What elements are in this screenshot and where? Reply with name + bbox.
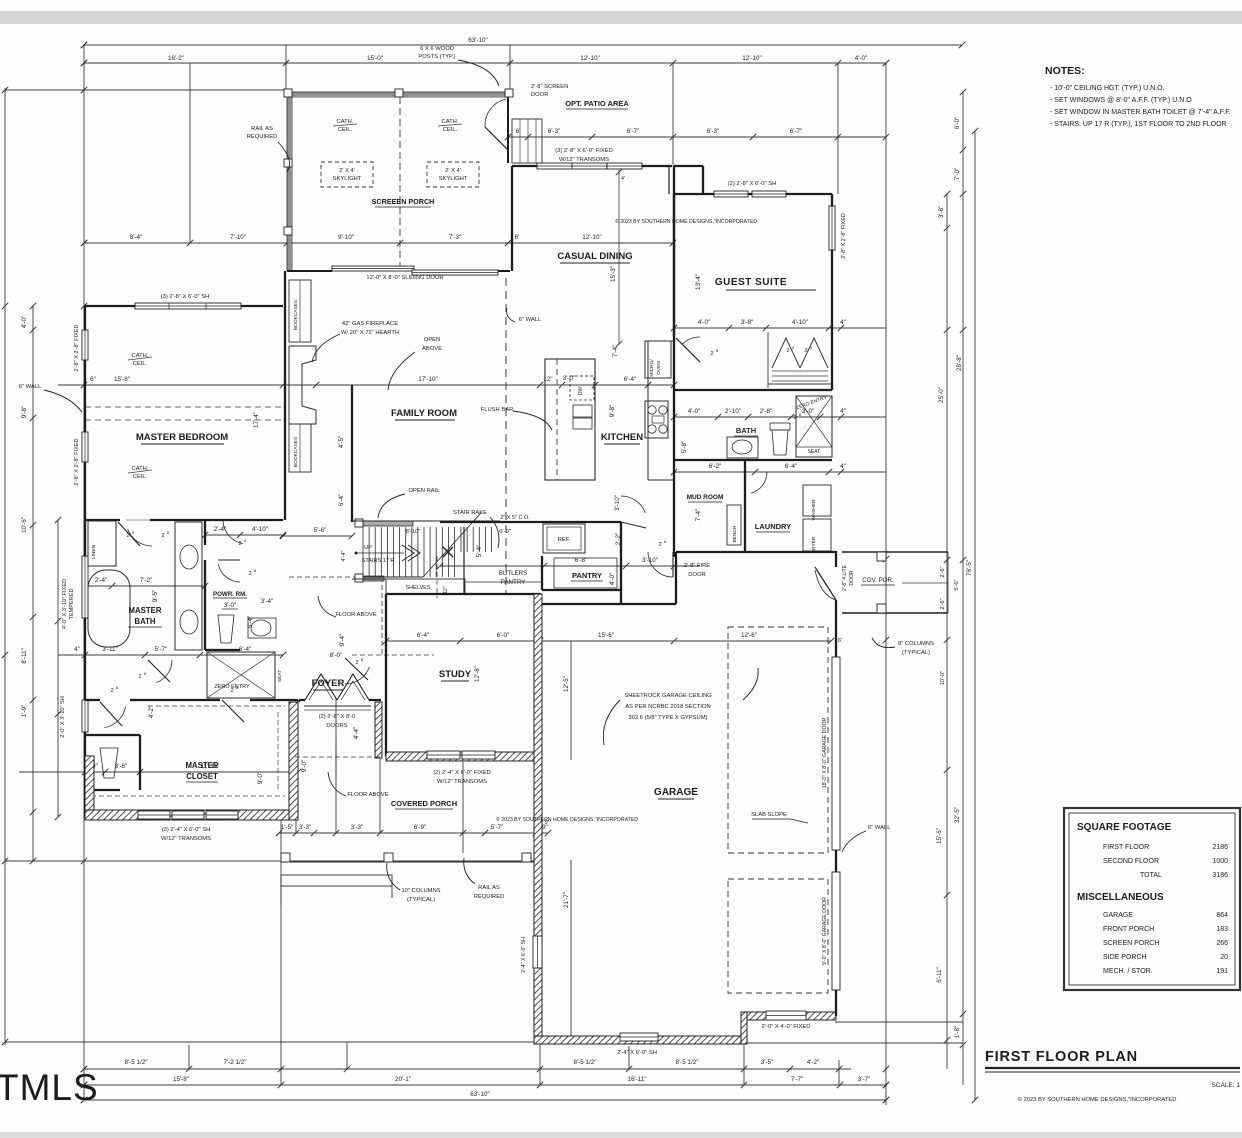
svg-text:2: 2 [804,348,807,354]
svg-text:2: 2 [248,571,251,577]
svg-text:BENCH: BENCH [732,525,738,542]
patio steps [512,119,542,163]
svg-text:FIRST FLOOR PLAN: FIRST FLOOR PLAN [985,1049,1138,1065]
svg-text:3'-8": 3'-8" [938,206,945,219]
svg-text:8'-11": 8'-11" [21,648,28,664]
svg-text:4": 4" [840,319,846,326]
garage left wall window [533,936,542,968]
svg-text:PANTRY: PANTRY [501,579,526,586]
stair left wall [351,385,353,522]
svg-text:REF.: REF. [558,537,571,543]
garage bottom step walls [744,1012,836,1020]
casual top wall extension [674,165,703,167]
linen angled door [118,522,140,546]
master bath dim line y655 [58,646,286,658]
foyer dim line y536 [280,527,355,539]
svg-text:SKYLIGHT: SKYLIGHT [439,176,468,182]
6 inch wall dashed partition [505,278,507,593]
svg-text:CASUAL DINING: CASUAL DINING [557,251,632,262]
svg-text:8'-10": 8'-10" [406,529,421,535]
svg-text:2'-8" 4 LITE: 2'-8" 4 LITE [842,564,848,591]
svg-text:RAIL AS: RAIL AS [251,126,273,132]
svg-text:OPEN RAIL: OPEN RAIL [409,488,441,494]
closet top walls [85,699,100,701]
foyer closet walls [298,700,300,702]
svg-text:COVERED PORCH: COVERED PORCH [391,799,457,808]
guest bath dim line y417 [671,408,886,420]
svg-text:12'-6": 12'-6" [741,632,757,639]
svg-text:BATH: BATH [134,617,155,626]
svg-text:2'-10": 2'-10" [725,408,741,415]
study top wall [386,593,541,595]
svg-text:MICRO/: MICRO/ [649,359,655,377]
svg-text:12'-5": 12'-5" [563,676,570,692]
porch dim line y833 [276,824,551,836]
entry double doors [305,674,337,700]
garage door 1 (18 ft) [832,657,840,850]
svg-text:UP: UP [364,545,372,551]
svg-text:15'-0": 15'-0" [367,55,383,62]
svg-text:MUD ROOM: MUD ROOM [687,494,724,501]
svg-text:W/12" TRANSOMS: W/12" TRANSOMS [559,157,609,163]
svg-text:5'-7": 5'-7" [491,824,504,831]
svg-text:PANTRY: PANTRY [572,571,602,580]
svg-text:2: 2 [710,351,713,357]
svg-text:2: 2 [238,541,241,547]
svg-text:10'-6": 10'-6" [21,517,28,533]
closet dim line y772 [19,763,301,775]
svg-text:2'-8" SCREEN: 2'-8" SCREEN [531,84,568,90]
guest suite dim line y328 [671,319,886,331]
svg-text:6': 6' [838,638,842,644]
svg-text:9'-10": 9'-10" [338,234,354,241]
svg-text:12'-10": 12'-10" [582,234,602,241]
witness line x190 [189,63,191,243]
svg-text:4": 4" [840,463,846,470]
top gray toolbar band [0,11,1242,24]
svg-text:CATH.: CATH. [442,119,459,125]
porch/dining dimension string 8'-4"/7'-10"/9'-10"/7'-3"/12'-10" [81,234,676,246]
left wall hatched segment [85,756,94,812]
svg-text:DOOR: DOOR [849,570,855,585]
svg-text:CLOSET: CLOSET [186,772,218,781]
svg-text:SEAT: SEAT [808,449,821,455]
svg-text:(TYPICAL): (TYPICAL) [407,897,435,903]
svg-text:3186: 3186 [1212,872,1228,879]
floor above dashed outline foyer [289,576,382,578]
bottom extension line y861 [5,860,534,862]
bottom dimension string 8'-5 1/2" etc [81,1059,851,1072]
svg-text:LAUNDRY: LAUNDRY [755,522,791,531]
svg-text:4'-2": 4'-2" [148,706,155,719]
guest suite right wall [831,194,833,390]
svg-text:183: 183 [1216,926,1228,933]
svg-text:(2) 2'-8" X 8'-0: (2) 2'-8" X 8'-0 [319,714,356,720]
svg-text:15'-6": 15'-6" [598,632,614,639]
garage left hatched wall [534,594,542,1040]
washer box [803,485,831,516]
svg-text:7'-10": 7'-10" [230,234,246,241]
svg-text:4'-4": 4'-4" [341,550,347,561]
casual dining left wall [511,166,513,271]
svg-text:CATH.: CATH. [132,353,149,359]
svg-text:6'-3": 6'-3" [707,128,720,135]
svg-text:6'-0": 6'-0" [954,117,961,130]
svg-text:6'-4": 6'-4" [338,494,345,507]
skylight dashed box right [427,162,479,187]
porch right slab edge lines [842,551,948,553]
svg-text:3'-8": 3'-8" [741,319,754,326]
powder room walls [204,520,206,545]
svg-text:POWR. RM.: POWR. RM. [213,591,247,598]
svg-text:13'-4": 13'-4" [695,274,702,290]
svg-text:3'-10": 3'-10" [614,495,621,511]
svg-text:2: 2 [110,688,113,694]
pantry walls [541,556,543,590]
entry center line and dashed floor line [335,738,337,779]
laundry left wall [744,460,746,552]
mud room bottom wall [676,551,836,553]
svg-text:4'-0": 4'-0" [21,316,28,329]
svg-text:4'-0": 4'-0" [855,55,868,62]
svg-text:6'-0": 6'-0" [499,529,511,535]
svg-text:- 10'-0" CEILING HGT. (TYP.): - 10'-0" CEILING HGT. (TYP.) U.N.O. [1050,85,1165,92]
svg-text:SLAB SLOPE: SLAB SLOPE [751,812,787,818]
bath vanity counter [175,522,202,650]
svg-text:4'-4": 4'-4" [353,727,360,740]
svg-text:4'-0" X 3'-10" FIXED: 4'-0" X 3'-10" FIXED [62,579,68,629]
right bottom extension lines [835,1021,963,1023]
svg-text:2'-0" X 4'-0" FIXED: 2'-0" X 4'-0" FIXED [762,1024,811,1030]
left main extension line x84 [83,45,85,1100]
powder toilet [218,615,234,643]
garage top wall [542,603,676,605]
svg-text:2'-6": 2'-6" [940,598,946,609]
svg-text:12'-10": 12'-10" [580,55,600,62]
stair rail gray band top [363,521,413,526]
svg-text:SCALE: 1: SCALE: 1 [1211,1082,1240,1089]
svg-text:COV. POR.: COV. POR. [862,577,894,584]
svg-text:6": 6" [90,376,96,383]
guest bath bottom wall [674,459,832,461]
svg-text:DOORS: DOORS [326,723,347,729]
svg-text:9'-0": 9'-0" [301,760,308,773]
svg-text:W/ 20" X 72" HEARTH: W/ 20" X 72" HEARTH [341,330,399,336]
study left wall [385,594,387,756]
master bedroom bottom wall [85,519,120,521]
garage bottom hatched wall [534,1036,744,1044]
svg-text:STAIR RAKE: STAIR RAKE [453,510,487,516]
svg-text:BUTLERS: BUTLERS [499,570,528,577]
svg-text:266: 266 [1216,940,1228,947]
svg-text:20: 20 [1220,954,1228,961]
garage ceiling dashed rect upper [728,627,828,853]
svg-text:2'-8": 2'-8" [760,408,773,415]
svg-text:6" WALL: 6" WALL [868,825,891,831]
svg-text:864: 864 [1216,912,1228,919]
lower bookcases [289,424,311,472]
svg-text:6'-4": 6'-4" [624,376,637,383]
guest suite left wall [673,194,675,336]
svg-text:2'-8" X 2'-8" FIXED: 2'-8" X 2'-8" FIXED [841,213,847,259]
svg-text:BATH: BATH [736,426,756,435]
svg-text:9": 9" [545,820,550,826]
bottom overall dimension 63'-10" [81,1091,889,1103]
extension line top left [5,89,287,91]
screen porch left wall (gray) [287,92,292,271]
svg-text:TOTAL: TOTAL [1140,872,1162,879]
guest closet [767,332,769,388]
svg-text:6'-4": 6'-4" [785,463,798,470]
svg-text:63'-10": 63'-10" [470,1091,490,1098]
svg-text:GARAGE: GARAGE [654,787,698,798]
svg-text:SECOND FLOOR: SECOND FLOOR [1103,858,1159,865]
family room left wall [284,271,286,520]
svg-text:1000: 1000 [1212,858,1228,865]
porch slab columns [281,853,290,862]
svg-text:2'-4" X 6'-0" SH: 2'-4" X 6'-0" SH [521,937,527,973]
witness lines center [295,772,297,833]
svg-text:MECH. / STOR.: MECH. / STOR. [1103,968,1153,975]
svg-text:191: 191 [1216,968,1228,975]
svg-text:2'-4" X 6'-0" SH: 2'-4" X 6'-0" SH [617,1050,657,1056]
dryer box [803,519,831,551]
right outer dim line x975 [974,131,976,1100]
garage bottom window [620,1033,658,1041]
svg-text:TMLS: TMLS [0,1067,99,1108]
svg-text:5'-6": 5'-6" [314,527,327,534]
svg-text:GUEST SUITE: GUEST SUITE [715,277,787,288]
bottom extension line y1042 [5,1041,534,1043]
svg-text:BOOKCASES: BOOKCASES [293,300,299,330]
svg-text:10" COLUMNS: 10" COLUMNS [401,888,440,894]
svg-text:9'-0" X 8'-0" GARAGE DOOR: 9'-0" X 8'-0" GARAGE DOOR [822,897,828,965]
fireplace [289,346,316,424]
garage ceiling dashed rect lower [728,879,828,993]
svg-text:28'-8": 28'-8" [956,355,963,371]
refrigerator [543,524,585,553]
svg-text:17'-10": 17'-10" [418,376,438,383]
svg-text:2'-8" X 2'-8" FIXED: 2'-8" X 2'-8" FIXED [74,438,80,485]
bath inner dim y586 [82,577,208,589]
svg-text:6" WALL: 6" WALL [19,384,42,390]
svg-text:- SET WINDOW IN MASTER BATH T: - SET WINDOW IN MASTER BATH TOILET @ 7'-… [1050,109,1231,116]
patio dimension string 6'/6'-3"/6'-7"/6'-3"/6'-7" [505,128,886,140]
svg-text:(3) 2'-8" X 6'-0" FIXED: (3) 2'-8" X 6'-0" FIXED [555,148,613,154]
svg-text:4'-10": 4'-10" [252,526,268,533]
svg-text:8'-4": 8'-4" [130,234,143,241]
kitchen right counter line [647,341,649,480]
svg-text:© 2023 BY SOUTHERN HOME DESIGN: © 2023 BY SOUTHERN HOME DESIGNS,"INCORPO… [615,218,757,225]
svg-text:- SET WINDOWS @ 8'-0" A.F.F.: - SET WINDOWS @ 8'-0" A.F.F. (TYP.) U.N.… [1050,97,1192,104]
svg-text:SQUARE FOOTAGE: SQUARE FOOTAGE [1077,822,1172,833]
svg-text:CEIL.: CEIL. [133,474,148,480]
kitchen dim y566 [437,557,700,569]
right dim line x947 [946,194,948,1069]
svg-text:2: 2 [793,415,796,421]
svg-text:9'-8": 9'-8" [21,406,28,419]
svg-text:REQUIRED: REQUIRED [247,134,278,140]
skylight dashed box left [321,162,373,187]
svg-text:WASHER: WASHER [811,499,817,520]
closet bottom hatched wall [85,810,298,820]
svg-text:25'-0": 25'-0" [938,387,945,403]
svg-text:2'-4": 2'-4" [95,577,108,584]
svg-text:MASTER BEDROOM: MASTER BEDROOM [136,432,228,443]
svg-text:CEIL.: CEIL. [133,361,148,367]
svg-text:21'-7": 21'-7" [563,892,570,908]
upper bookcases [289,280,311,342]
bedroom hall door arc [128,529,152,546]
svg-text:FLOOR ABOVE: FLOOR ABOVE [335,612,376,618]
svg-text:FAMILY ROOM: FAMILY ROOM [391,408,457,419]
left window dim line x58 [57,520,59,817]
svg-text:7'-2 1/2": 7'-2 1/2" [223,1059,246,1066]
svg-text:OVEN: OVEN [656,361,662,375]
svg-text:OPT. PATIO AREA: OPT. PATIO AREA [565,99,629,108]
main interior dim line y385 (15'-8"/17'-10"/12"/3'-0"/6'-4") [58,375,677,388]
laundry dim line y472 [671,463,886,475]
svg-text:SHEETROCK GARAGE CEILING: SHEETROCK GARAGE CEILING [624,693,712,699]
svg-text:(TYPICAL): (TYPICAL) [902,650,930,656]
svg-text:6'-9": 6'-9" [414,824,427,831]
kitchen service wall y522 [440,521,621,523]
svg-text:15'-8": 15'-8" [173,1076,189,1083]
svg-text:3'-3": 3'-3" [299,824,312,831]
svg-text:1'-5": 1'-5" [281,824,294,831]
svg-text:9'-0": 9'-0" [257,772,264,785]
svg-text:FLOOR ABOVE: FLOOR ABOVE [347,792,388,798]
left inner dimension line [32,306,34,861]
square footage table box [1064,808,1240,990]
porch step band [281,861,534,863]
svg-text:42" GAS FIREPLACE: 42" GAS FIREPLACE [342,321,398,327]
svg-text:12'-0" X 8'-0" SLIDING DOOR: 12'-0" X 8'-0" SLIDING DOOR [366,275,443,281]
micro/oven cabinet [645,341,671,378]
svg-text:2'-0" X 3'-10" SH: 2'-0" X 3'-10" SH [60,696,66,738]
svg-text:RAIL AS: RAIL AS [478,885,500,891]
porch corner posts [284,89,292,97]
svg-text:8'-5 1/2": 8'-5 1/2" [124,1059,147,1066]
svg-text:7'-4": 7'-4" [612,345,619,358]
svg-text:SHELVES: SHELVES [406,585,431,591]
svg-text:7'-3": 7'-3" [449,234,462,241]
casual dining top wall with windows [512,165,672,167]
svg-text:4'-10": 4'-10" [792,319,808,326]
svg-text:2' X 4': 2' X 4' [339,168,355,174]
svg-text:7'-0": 7'-0" [954,168,961,181]
bath toilet [772,430,788,455]
svg-text:SEAT: SEAT [277,670,283,682]
svg-text:6': 6' [515,234,520,241]
svg-text:8'-5 1/2": 8'-5 1/2" [675,1059,698,1066]
svg-text:9'-5": 9'-5" [152,590,159,603]
svg-text:18'-0" X 8'-0" GARAGE DOOR: 18'-0" X 8'-0" GARAGE DOOR [822,717,828,788]
svg-text:2: 2 [786,348,789,354]
svg-text:© 2023 BY SOUTHERN HOME DESIGN: © 2023 BY SOUTHERN HOME DESIGNS,"INCORPO… [496,816,638,823]
svg-text:1'-9": 1'-9" [21,705,28,718]
svg-text:3'-6": 3'-6" [115,763,128,770]
svg-text:REQUIRED: REQUIRED [474,894,505,900]
svg-text:SCREEN PORCH: SCREEN PORCH [1103,940,1159,947]
svg-text:MASTER: MASTER [129,606,162,615]
svg-text:2: 2 [658,542,661,548]
svg-text:(3) 2'-8" X 6'-0" SH: (3) 2'-8" X 6'-0" SH [161,294,210,300]
island sink [573,405,592,417]
top dimension string 16'-2"/15'-0"/12'-10"/12'-10"/4'-0" [81,55,889,66]
master tub [88,570,130,647]
svg-text:STUDY: STUDY [439,669,472,680]
svg-text:GARAGE: GARAGE [1103,912,1133,919]
svg-text:FLUSH BAR: FLUSH BAR [481,407,514,413]
svg-text:CATH.: CATH. [337,119,354,125]
svg-text:2: 2 [230,688,233,694]
closet right hatched wall [289,702,298,820]
right extension line x886 [885,63,887,1105]
svg-text:4'-5": 4'-5" [338,436,345,449]
svg-text:5'-7": 5'-7" [155,646,168,653]
svg-text:3'-3": 3'-3" [351,824,364,831]
cooktop with burners [645,401,668,438]
porch columns right [877,552,886,561]
svg-text:3'-0": 3'-0" [224,602,236,609]
svg-text:6'-7": 6'-7" [790,128,803,135]
wic door arcs upper [223,520,243,544]
screen porch right wall upper [507,92,509,163]
svg-text:MISCELLANEOUS: MISCELLANEOUS [1077,892,1164,903]
closet left angled door [100,702,122,726]
svg-text:6'-3": 6'-3" [548,128,561,135]
svg-text:(3) 2'-4" X 6'-0" SH: (3) 2'-4" X 6'-0" SH [162,827,211,833]
svg-text:302.6 (5/8" TYPE X GYPSUM): 302.6 (5/8" TYPE X GYPSUM) [629,715,708,721]
witness line x673 [672,63,674,166]
bath hall angled doors [148,660,170,682]
guest bath top wall [674,389,832,391]
sliding door wall [287,270,332,272]
svg-text:76'-5": 76'-5" [966,560,973,576]
svg-text:9'-4": 9'-4" [339,634,346,647]
svg-text:MASTER: MASTER [186,761,219,770]
svg-text:3'-7": 3'-7" [858,1076,871,1083]
kitchen island [545,359,595,480]
left outer dimension line [4,88,6,1045]
svg-text:4'-0": 4'-0" [698,319,711,326]
garage right wall [835,551,837,567]
svg-text:2: 2 [126,533,129,539]
garage witness x571 with rotated dims [570,641,572,760]
wc toilet room [85,734,140,736]
cov por door [815,570,836,600]
svg-text:2' X 4': 2' X 4' [445,168,461,174]
powder sink [251,620,271,636]
guest hall angled door [676,338,700,362]
mud room door from kitchen [621,496,645,513]
svg-text:SKYLIGHT: SKYLIGHT [333,176,362,182]
svg-text:NOTES:: NOTES: [1045,65,1085,77]
mud bench [727,505,741,545]
svg-text:15'-3": 15'-3" [610,266,617,282]
svg-text:2'-6": 2'-6" [940,566,946,577]
svg-text:6'-7": 6'-7" [627,128,640,135]
svg-text:OPEN: OPEN [424,337,440,343]
bottom gray toolbar band [0,1132,1242,1138]
witness line x286 [285,45,287,92]
svg-text:8'-5 1/2": 8'-5 1/2" [573,1059,596,1066]
svg-text:2: 2 [355,660,358,666]
svg-text:KITCHEN: KITCHEN [601,432,643,443]
svg-text:4': 4' [621,176,625,182]
kitchen right wall [673,194,675,557]
